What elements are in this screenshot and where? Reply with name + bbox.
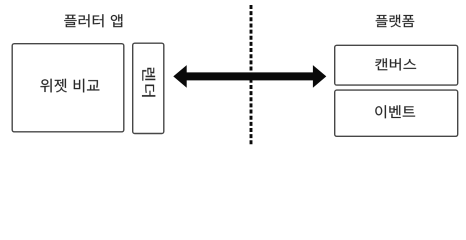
dashed separator line	[250, 5, 253, 145]
label: 플러터 앱 (Flutter app title)	[64, 14, 122, 27]
box: 렌더 (render, narrow vertical)	[133, 43, 164, 133]
box: 캔버스 (canvas)	[335, 45, 458, 85]
box: 이벤트 (event)	[335, 90, 458, 136]
label: 플랫폼 (Platform title)	[376, 15, 415, 28]
text: 렌더 (rotated 90° clockwise)	[142, 68, 155, 97]
double-headed arrow between app and platform	[173, 65, 326, 88]
box: 위젯 비교 (widget compare)	[12, 44, 124, 132]
text: 캔버스	[375, 58, 416, 70]
text: 이벤트	[375, 105, 415, 118]
text: 위젯 비교	[40, 79, 99, 93]
